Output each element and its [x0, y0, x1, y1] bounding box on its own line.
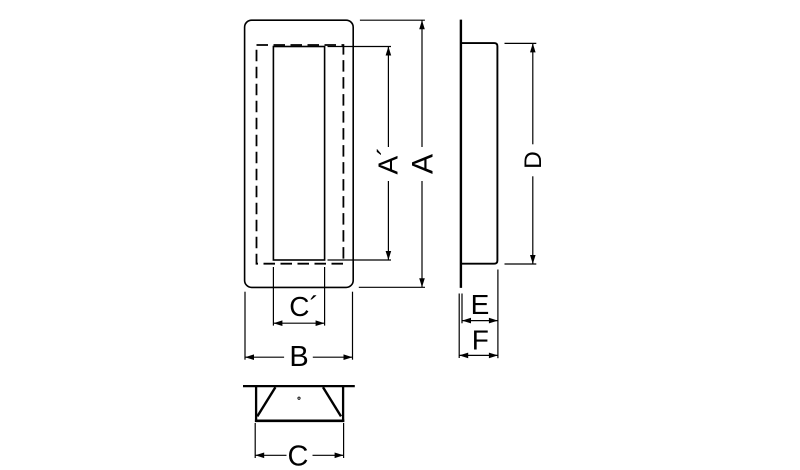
svg-text:A´: A´	[373, 147, 404, 175]
svg-text:A: A	[407, 154, 440, 174]
svg-text:C: C	[288, 440, 309, 470]
svg-text:B: B	[289, 341, 308, 373]
svg-text:E: E	[471, 289, 490, 320]
svg-text:F: F	[472, 324, 489, 355]
svg-text:C´: C´	[289, 291, 319, 322]
svg-text:D: D	[520, 151, 547, 169]
